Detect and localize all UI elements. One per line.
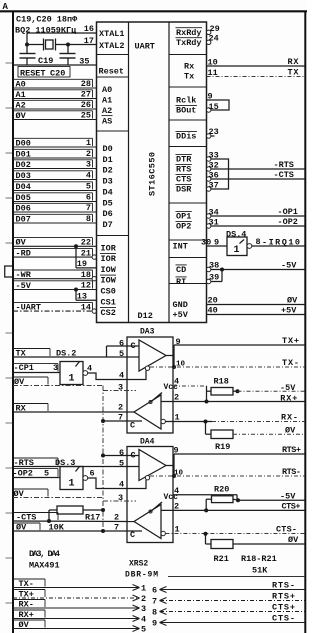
- wire R18 to RX+: [206, 386, 208, 402]
- svg-text:26: 26: [81, 100, 91, 110]
- svg-text:-RTS: -RTS: [274, 160, 294, 170]
- svg-text:10: 10: [174, 470, 184, 478]
- svg-text:CD: CD: [176, 265, 186, 275]
- svg-text:D1: D1: [103, 155, 113, 165]
- svg-text:5: 5: [86, 182, 91, 192]
- receiver DA4 Vcc tap: [149, 493, 178, 513]
- svg-text:Reset: Reset: [99, 67, 125, 77]
- svg-text:TX-: TX-: [282, 358, 299, 368]
- svg-text:22: 22: [81, 238, 91, 248]
- wire RX+ to connector pin 4: [13, 610, 146, 624]
- frame left border: [12, 11, 14, 633]
- svg-text:34: 34: [209, 208, 219, 218]
- wire -IRQ10 from DS.4 pin 8: [251, 237, 305, 247]
- svg-text:-5V: -5V: [16, 281, 32, 291]
- svg-text:RESET: RESET: [20, 68, 46, 78]
- svg-text:ØV: ØV: [16, 111, 27, 121]
- svg-text:A2: A2: [102, 106, 112, 116]
- wire D00 to pin 1: [13, 138, 97, 148]
- wire 0V from GND pin 20: [207, 296, 306, 306]
- wire RTS- to connector pin 6: [152, 580, 305, 595]
- wire TX from pin 11: [207, 68, 306, 78]
- svg-text:C20: C20: [50, 68, 65, 78]
- svg-text:21: 21: [81, 248, 91, 258]
- svg-text:15: 15: [209, 102, 219, 112]
- svg-text:9: 9: [214, 238, 219, 248]
- svg-text:29: 29: [210, 24, 220, 34]
- svg-text:C: C: [130, 421, 135, 431]
- svg-text:ØV: ØV: [16, 238, 27, 248]
- driver DA4 invert bubble: [145, 476, 149, 480]
- pin 24 TxRdy bubble: [207, 34, 219, 45]
- svg-text:11: 11: [208, 68, 218, 78]
- svg-text:7: 7: [152, 596, 157, 606]
- svg-text:16: 16: [84, 24, 94, 34]
- wire DS.3 out pin 6 to driver: [88, 469, 146, 490]
- svg-text:D00: D00: [16, 138, 31, 148]
- svg-text:R17: R17: [85, 512, 100, 522]
- svg-text:24: 24: [209, 34, 219, 44]
- svg-text:25: 25: [81, 111, 91, 121]
- wire -RTS from pin 32: [207, 161, 306, 172]
- svg-text:UART: UART: [135, 42, 155, 52]
- wire RX from pin 10: [207, 58, 306, 68]
- wire CTS+ pin 2: [161, 501, 305, 511]
- svg-text:6: 6: [90, 469, 95, 479]
- svg-text:1: 1: [141, 583, 146, 593]
- svg-text:DDis: DDis: [176, 132, 196, 142]
- wire pin 19 link: [76, 246, 97, 269]
- svg-text:DBR-9M: DBR-9M: [125, 571, 158, 580]
- svg-text:3: 3: [86, 160, 91, 170]
- svg-text:D3: D3: [103, 177, 113, 187]
- svg-text:A1: A1: [16, 90, 26, 100]
- svg-text:8: 8: [256, 237, 261, 247]
- frame top border: [0, 10, 307, 12]
- svg-text:D06: D06: [16, 203, 31, 213]
- svg-text:RI: RI: [176, 277, 186, 287]
- svg-text:40: 40: [208, 306, 218, 316]
- wire -5V rail DA4: [238, 499, 305, 501]
- svg-text:Tx: Tx: [184, 72, 194, 82]
- svg-text:TX+: TX+: [282, 336, 299, 346]
- wire RX from receiver pin 2: [13, 402, 134, 413]
- svg-text:TX: TX: [288, 68, 300, 78]
- svg-text:CTS-: CTS-: [276, 525, 297, 535]
- svg-text:C: C: [130, 530, 135, 540]
- svg-text:6: 6: [119, 448, 124, 458]
- svg-text:27: 27: [81, 90, 91, 100]
- node R20 -5V: [236, 498, 240, 502]
- resistor R19: [206, 422, 234, 453]
- wire XTAL2 pin17: [27, 44, 97, 46]
- wire -CP1 to DS.2 pin 3: [13, 363, 60, 373]
- svg-text:14: 14: [81, 302, 91, 312]
- svg-text:C: C: [131, 341, 136, 351]
- svg-text:9: 9: [208, 92, 213, 102]
- svg-text:7: 7: [86, 203, 91, 213]
- svg-text:2: 2: [141, 594, 146, 604]
- svg-text:R18-R21: R18-R21: [241, 554, 277, 564]
- svg-text:TxRdy: TxRdy: [176, 38, 202, 48]
- svg-text:-OP2: -OP2: [278, 217, 298, 227]
- wire -CTS from pin 36: [207, 171, 306, 182]
- svg-text:R20: R20: [214, 484, 229, 494]
- resistor R17: [47, 506, 105, 523]
- svg-text:TX: TX: [16, 348, 27, 358]
- svg-text:RTS: RTS: [176, 165, 191, 175]
- wire -CTS to R17: [13, 513, 134, 523]
- node CTS+ junction: [204, 508, 208, 512]
- pin 23 DDis bubble: [207, 127, 219, 138]
- node pin38 -5V: [220, 268, 224, 272]
- pin 29 RxRdy bubble: [207, 24, 220, 35]
- svg-text:+5V: +5V: [281, 306, 297, 316]
- svg-text:RTS+: RTS+: [282, 445, 301, 455]
- svg-text:4: 4: [86, 171, 91, 181]
- wire TX+ pin 9: [166, 337, 305, 367]
- wire A1 to pin 27: [13, 90, 97, 100]
- node RTS- split: [172, 474, 176, 478]
- wire D04 to pin 5: [13, 182, 97, 192]
- wire D02 to pin 3: [13, 160, 97, 170]
- wire -5V rail: [238, 390, 306, 392]
- svg-text:RTS-: RTS-: [282, 467, 301, 477]
- svg-text:D04: D04: [16, 182, 31, 192]
- node 0V pin22: [74, 244, 78, 248]
- svg-text:R19: R19: [215, 442, 230, 452]
- wire RX- pin 1: [165, 413, 305, 423]
- gate DS.4: [227, 237, 252, 256]
- svg-text:ØV: ØV: [19, 620, 30, 630]
- wire 0V to pin 25: [13, 111, 97, 121]
- wire -OP1 from pin 34: [207, 208, 306, 219]
- svg-text:1: 1: [175, 525, 180, 535]
- svg-text:XTAL1: XTAL1: [99, 29, 125, 39]
- wire CTS- pin 1: [165, 525, 305, 535]
- svg-text:-5V: -5V: [280, 492, 296, 502]
- wire D03 to pin 4: [13, 171, 97, 181]
- node R18 -5V: [236, 389, 240, 393]
- svg-text:AS: AS: [102, 117, 112, 127]
- wire 0V receiver enable pin 7: [13, 523, 142, 541]
- svg-text:D5: D5: [103, 199, 113, 209]
- driver DA4 body: [127, 447, 173, 543]
- wire pin 13 link: [76, 290, 97, 302]
- driver DA3 invert bubble: [145, 366, 149, 370]
- svg-text:DA3: DA3: [140, 328, 155, 337]
- wire +5V from pin 40: [207, 306, 306, 316]
- wire TX+ to connector pin 2: [13, 589, 146, 603]
- svg-text:DSR: DSR: [176, 185, 192, 195]
- svg-text:CTS: CTS: [176, 175, 191, 185]
- node RX- junction: [204, 420, 208, 424]
- svg-text:2: 2: [174, 501, 179, 511]
- svg-text:-WR: -WR: [16, 270, 32, 280]
- svg-text:OP1: OP1: [176, 212, 191, 222]
- crystal BQ2: [44, 39, 56, 51]
- svg-text:18: 18: [81, 270, 91, 280]
- svg-text:3: 3: [53, 363, 58, 373]
- svg-text:XTAL2: XTAL2: [99, 41, 125, 51]
- wire A0 to pin 28: [13, 79, 97, 89]
- svg-text:1: 1: [86, 138, 91, 148]
- wire -OP2 from pin 31: [207, 218, 306, 229]
- svg-text:ST16C550: ST16C550: [148, 152, 158, 196]
- svg-text:12: 12: [81, 281, 91, 291]
- svg-text:RX: RX: [288, 57, 300, 67]
- svg-text:CTS-: CTS-: [272, 613, 295, 623]
- svg-text:32: 32: [209, 161, 219, 171]
- svg-text:D7: D7: [103, 220, 113, 230]
- svg-text:INT: INT: [173, 242, 188, 252]
- svg-text:2: 2: [174, 393, 179, 403]
- wire RTS- pin 10: [150, 470, 305, 478]
- svg-text:D4: D4: [103, 188, 113, 198]
- svg-text:DS.4: DS.4: [226, 229, 246, 239]
- wire pin 39 to -5V: [207, 270, 223, 284]
- svg-text:37: 37: [209, 181, 219, 191]
- wire R20 to CTS+: [205, 499, 207, 510]
- svg-text:5: 5: [44, 468, 49, 478]
- svg-text:DS.2: DS.2: [56, 348, 76, 358]
- svg-text:1: 1: [69, 374, 75, 385]
- label box RESET C20: [18, 67, 70, 79]
- svg-text:2: 2: [86, 149, 91, 159]
- svg-text:XRS2: XRS2: [129, 560, 148, 569]
- svg-text:-OP2: -OP2: [13, 468, 33, 478]
- svg-text:IOR: IOR: [101, 254, 117, 264]
- gate DS.3: [60, 467, 88, 490]
- svg-text:2: 2: [114, 513, 119, 523]
- svg-text:2: 2: [118, 402, 123, 412]
- svg-text:5: 5: [119, 459, 124, 469]
- svg-text:51K: 51K: [252, 566, 268, 576]
- gate DS.2: [60, 362, 88, 385]
- wire Rclk-BOut loop: [207, 92, 230, 113]
- svg-text:10: 10: [208, 58, 218, 68]
- svg-text:31: 31: [209, 218, 219, 228]
- svg-text:ØV: ØV: [288, 535, 299, 545]
- svg-text:MAX491: MAX491: [29, 561, 60, 571]
- wire enable pin 6 DA4: [101, 448, 139, 461]
- svg-text:5: 5: [119, 349, 124, 359]
- svg-text:A0: A0: [16, 79, 26, 89]
- svg-text:D6: D6: [103, 209, 113, 219]
- svg-text:CTS+: CTS+: [272, 602, 295, 612]
- svg-text:7: 7: [118, 412, 123, 422]
- wire receiver enable pin 7: [101, 412, 142, 430]
- wire 0V to pin 22: [13, 238, 97, 248]
- wire TX- pin 10: [150, 361, 305, 369]
- svg-text:BQ2 11059КГц: BQ2 11059КГц: [15, 26, 76, 36]
- receiver DA3 triangle: [134, 395, 161, 429]
- wire RTS+ to connector pin 7: [152, 591, 305, 606]
- svg-text:6: 6: [119, 338, 124, 348]
- wire A2 to pin 26: [13, 100, 97, 110]
- svg-text:ØV: ØV: [16, 523, 27, 533]
- wire -RTS to pin 5: [13, 458, 139, 469]
- svg-text:D01: D01: [16, 149, 31, 159]
- wire 0V vertical distribution: [102, 386, 104, 532]
- svg-text:-RD: -RD: [16, 249, 31, 259]
- receiver DA4 triangle: [134, 505, 161, 539]
- svg-text:D02: D02: [16, 160, 31, 170]
- wire RESET to pin 35: [13, 64, 97, 66]
- svg-text:6: 6: [152, 585, 157, 595]
- svg-text:4: 4: [174, 486, 179, 496]
- wire 0V rail left: [13, 377, 103, 387]
- svg-text:CS0: CS0: [101, 287, 116, 297]
- wire -OP2 to DS.3 pin 5: [13, 468, 61, 478]
- svg-text:C19,C20 18пФ: C19,C20 18пФ: [16, 15, 78, 25]
- capacitor C20: [60, 45, 76, 66]
- svg-text:1: 1: [175, 413, 180, 423]
- svg-text:-5V: -5V: [281, 261, 297, 271]
- svg-text:ØV: ØV: [287, 296, 298, 306]
- receiver input bubble CTS-: [161, 531, 165, 535]
- svg-text:R18: R18: [214, 377, 229, 387]
- svg-text:19: 19: [77, 259, 87, 269]
- svg-text:CTS+: CTS+: [282, 502, 301, 512]
- wire D05 to pin 6: [13, 193, 97, 203]
- receiver input bubble RX-: [161, 419, 165, 423]
- svg-text:30: 30: [201, 238, 211, 248]
- svg-text:20: 20: [208, 296, 218, 306]
- svg-text:3: 3: [118, 382, 123, 392]
- svg-text:-CTS: -CTS: [274, 170, 294, 180]
- wire -RD to pin 21: [13, 248, 97, 259]
- svg-text:4: 4: [141, 614, 146, 624]
- wire XTAL1 pin16: [27, 33, 97, 45]
- frame right border: [304, 11, 306, 633]
- resistor R20: [206, 484, 236, 502]
- svg-text:RX-: RX-: [19, 599, 34, 609]
- node RX+ junction: [205, 400, 209, 404]
- wire RTS+ pin 9: [166, 445, 305, 476]
- wire INT to DS.4: [201, 238, 227, 248]
- svg-text:-UART: -UART: [16, 303, 42, 313]
- svg-text:BOut: BOut: [176, 106, 196, 116]
- node crystal left: [25, 43, 29, 47]
- svg-text:D12: D12: [138, 311, 153, 321]
- capacitor C19: [20, 45, 36, 66]
- driver DA3 triangle: [139, 340, 166, 371]
- svg-text:-5V: -5V: [280, 383, 296, 393]
- svg-text:ØV: ØV: [14, 377, 25, 387]
- svg-text:DTR: DTR: [176, 155, 192, 165]
- frame border tick marks: [4, 63, 12, 603]
- node crystal right: [66, 43, 70, 47]
- svg-text:7: 7: [114, 523, 119, 533]
- svg-text:RTS-: RTS-: [272, 580, 295, 590]
- svg-text:R21: R21: [214, 554, 229, 564]
- svg-text:D07: D07: [16, 214, 31, 224]
- svg-text:D05: D05: [16, 193, 31, 203]
- wire RX+ pin 2: [161, 393, 305, 403]
- svg-text:D2: D2: [103, 166, 113, 176]
- svg-text:DA4: DA4: [140, 438, 155, 447]
- svg-text:38: 38: [209, 261, 219, 271]
- node CTS- junction: [204, 532, 208, 536]
- svg-text:RX+: RX+: [280, 393, 297, 403]
- svg-text:3: 3: [118, 493, 123, 503]
- svg-text:CS2: CS2: [101, 308, 116, 318]
- svg-text:Rclk: Rclk: [176, 96, 196, 106]
- driver DA3 body: [127, 337, 173, 433]
- resistor R21: [206, 534, 306, 564]
- wire CTS+ to connector pin 8: [152, 602, 305, 617]
- wire enable pin 6: [107, 338, 140, 357]
- svg-text:D03: D03: [16, 171, 31, 181]
- wire TX- to connector pin 1: [13, 579, 146, 593]
- svg-text:ØV: ØV: [14, 489, 25, 499]
- chip right pin names: [173, 28, 203, 320]
- svg-text:RX: RX: [16, 403, 27, 413]
- svg-text:IOW: IOW: [101, 276, 117, 286]
- svg-text:RX-: RX-: [281, 413, 298, 423]
- svg-text:CS1: CS1: [101, 297, 116, 307]
- wire 0V rail left DA4: [13, 489, 103, 499]
- svg-text:C: C: [131, 451, 136, 461]
- svg-text:IOW: IOW: [101, 265, 117, 275]
- svg-text:23: 23: [209, 127, 219, 137]
- wire pin 3 to 0V: [103, 382, 136, 392]
- svg-text:-CTS: -CTS: [16, 513, 36, 523]
- wire -WR to pin 18: [13, 270, 97, 281]
- svg-text:6: 6: [86, 193, 91, 203]
- wire D01 to pin 2: [13, 149, 97, 159]
- op-amp U1 chip body D12 ST16C550: [97, 22, 207, 323]
- svg-text:D0: D0: [103, 144, 113, 154]
- wire -5V to pin 12: [13, 281, 97, 291]
- wire -5V pin 38: [207, 261, 306, 272]
- svg-text:GND: GND: [173, 300, 188, 310]
- svg-text:8: 8: [152, 607, 157, 617]
- node TX- split: [172, 365, 176, 369]
- svg-text:-IRQ10: -IRQ10: [262, 237, 300, 247]
- svg-text:Rx: Rx: [184, 62, 194, 72]
- svg-text:-CP1: -CP1: [14, 363, 34, 373]
- svg-text:13: 13: [77, 292, 87, 302]
- receiver DA3 Vcc tap: [149, 383, 178, 404]
- svg-text:RTS+: RTS+: [272, 591, 295, 601]
- wire D06 to pin 7: [13, 203, 97, 213]
- svg-text:RxRdy: RxRdy: [176, 28, 202, 38]
- svg-text:+5V: +5V: [173, 310, 189, 320]
- svg-text:A2: A2: [16, 100, 26, 110]
- svg-text:39: 39: [209, 273, 219, 283]
- svg-text:ØV: ØV: [285, 425, 296, 435]
- svg-text:4: 4: [174, 376, 179, 386]
- svg-text:OP2: OP2: [176, 222, 191, 232]
- svg-text:A1: A1: [102, 96, 112, 106]
- svg-text:-OP1: -OP1: [278, 207, 298, 217]
- wire ØV to connector pin 5: [13, 620, 146, 633]
- svg-text:36: 36: [209, 171, 219, 181]
- resistor R18: [207, 377, 237, 396]
- svg-text:35: 35: [79, 56, 89, 66]
- connector header line: [168, 576, 305, 578]
- svg-text:DA3, DA4: DA3, DA4: [29, 549, 60, 559]
- svg-text:1: 1: [69, 479, 75, 490]
- svg-text:RX+: RX+: [19, 610, 34, 620]
- svg-text:9: 9: [174, 445, 179, 455]
- wire CTS- to connector pin 9: [152, 613, 305, 628]
- wire RX- to connector pin 3: [13, 599, 146, 613]
- chip left pin names: [99, 29, 125, 318]
- svg-text:9: 9: [176, 337, 181, 347]
